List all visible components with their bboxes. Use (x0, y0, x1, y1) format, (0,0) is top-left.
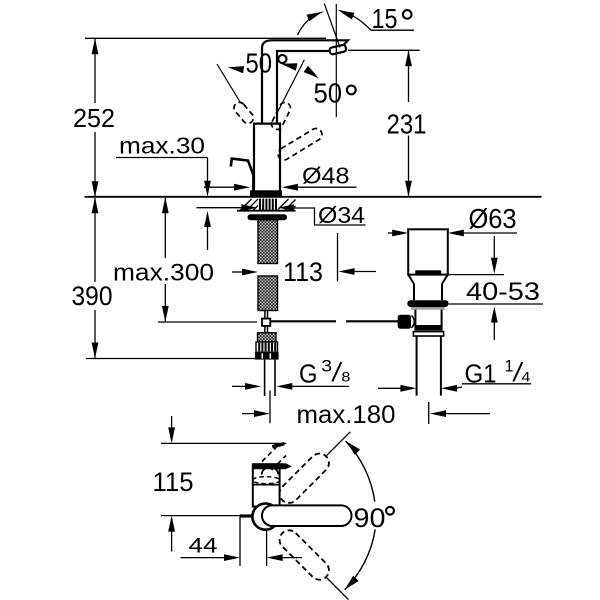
svg-text:3: 3 (321, 356, 332, 375)
diameter 63 arrow right (448, 230, 464, 237)
svg-text:115: 115 (153, 467, 194, 497)
50-degree circle second (347, 86, 356, 95)
G 3/8 arrow right (276, 383, 292, 390)
top view dashed ellipse (252, 477, 280, 484)
90-degree radial lower (325, 576, 348, 599)
diameter 34 arrow right (278, 204, 294, 211)
svg-text:max.180: max.180 (297, 401, 396, 429)
dimension 44 right extension line (266, 531, 268, 566)
deck hatching left (240, 199, 258, 211)
50-degree radial right (278, 60, 305, 112)
max.300 bottom reference line (158, 321, 257, 323)
390 arrow down (92, 343, 99, 359)
top view dashed lever down (276, 526, 333, 583)
390 arrow up (92, 197, 99, 213)
max.30 arrow up (204, 211, 211, 227)
dimension 115 upper line and arrow (171, 416, 173, 429)
max.300 arrow up (162, 197, 169, 213)
G 3/8 arrow left (232, 385, 249, 387)
max.30 leader line down (207, 158, 209, 183)
base flange (250, 190, 282, 197)
15-degree arrow right (338, 10, 354, 19)
svg-text:40-53: 40-53 (466, 278, 540, 306)
15-degree arc right (340, 11, 415, 31)
90-degree circle (386, 507, 394, 515)
dimension 390 line (94, 198, 96, 358)
svg-text:390: 390 (72, 281, 113, 311)
supply connector threads (258, 333, 277, 342)
diameter 63 underline (456, 232, 517, 234)
svg-text:50: 50 (246, 48, 273, 79)
dashed lever position upper-left (232, 100, 256, 125)
svg-text:Ø34: Ø34 (318, 202, 365, 228)
svg-text:15: 15 (372, 3, 398, 34)
dimension 44 left extension line (239, 517, 241, 567)
15-degree circle (403, 10, 412, 19)
50-degree arrow left (228, 66, 244, 73)
diameter 34 leader (292, 208, 366, 225)
rod fitting square (262, 319, 270, 326)
svg-text:Ø63: Ø63 (469, 203, 517, 234)
drain body (415, 310, 441, 331)
mounting washer (248, 214, 288, 220)
basin reference line (448, 274, 504, 276)
top view cross line (253, 484, 279, 486)
90-degree arrow upper (346, 441, 360, 455)
svg-text:max.30: max.30 (119, 132, 205, 158)
dimension max.300 line (164, 198, 166, 321)
svg-text:50: 50 (314, 77, 343, 108)
G 1 1/4 arrow left (378, 387, 404, 389)
drain plug band (415, 270, 441, 274)
supply connector striped collar (256, 342, 278, 352)
drain body bottom band (415, 325, 441, 331)
top view dashed spout (262, 447, 286, 470)
drain rod clamp (398, 315, 411, 329)
drain washer shadow band (411, 307, 444, 310)
svg-text:252: 252 (73, 103, 115, 133)
90-degree arc upper (346, 441, 375, 502)
drain taper (408, 275, 448, 284)
pop-up rod (270, 320, 336, 322)
drain upper cylinder (408, 229, 448, 274)
dimension 231 arrow up (405, 50, 412, 66)
dimension 113 arrow left (232, 271, 246, 273)
diameter 63 arrow left (388, 232, 399, 234)
top view dashed lever up (276, 450, 333, 507)
G 1 1/4 arrow right (441, 385, 457, 392)
drain tailpipe (416, 336, 418, 396)
drain mid cylinder (414, 284, 442, 300)
dimension 40-53 arrow up (491, 307, 498, 323)
supply hose left edge (264, 360, 266, 396)
50-degree arrow right (304, 66, 319, 79)
dimension 44 shaft and arrow (181, 557, 229, 559)
dimension 231 arrow down (405, 181, 412, 197)
90-degree arc lower (345, 529, 376, 589)
deck bottom line (237, 210, 296, 212)
handle lever solid (231, 159, 254, 192)
spout vertical centerline (335, 4, 337, 117)
top view cartridge dome arc (262, 467, 278, 475)
supply hose right edge (274, 360, 276, 396)
dashed lever position upper-right (270, 101, 293, 132)
diameter 34 arrow left (197, 207, 244, 209)
drain seal washer (407, 300, 448, 307)
svg-text:8: 8 (341, 368, 350, 384)
diameter 48 arrow right (282, 184, 298, 191)
top view body (253, 464, 280, 506)
390 bottom reference line (86, 358, 255, 360)
svg-text:1: 1 (505, 356, 514, 375)
max.180 arrow left (242, 413, 258, 415)
threaded shank lower (258, 276, 278, 311)
max.180 left extension line (269, 391, 271, 424)
rod fitting pin lower (265, 326, 268, 333)
deck line (85, 196, 542, 198)
faucet body (254, 124, 280, 191)
drain nut band (413, 332, 443, 336)
max.300 arrow down (162, 306, 169, 322)
50-degree arrow middle (281, 63, 297, 70)
rod fitting pin upper (265, 311, 268, 319)
diameter 48 underline (300, 186, 357, 188)
90-degree arrow lower (345, 576, 359, 590)
svg-text:113: 113 (283, 257, 323, 287)
dimension 40-53 arrow down (493, 236, 495, 262)
reference line spout underside right (348, 49, 420, 51)
aerator (329, 44, 347, 54)
svg-text:Ø48: Ø48 (302, 163, 350, 189)
svg-text:231: 231 (387, 109, 427, 140)
G 1 1/4 underline (462, 383, 531, 385)
top reference line (spout top extension) (85, 37, 326, 39)
max.30 arrow down (204, 181, 211, 197)
svg-text:44: 44 (189, 534, 218, 558)
top view dashed spout tip (272, 444, 284, 447)
dimension 44 right arrow (267, 554, 283, 561)
50-degree circle first (278, 55, 286, 63)
dimension 231 line (408, 51, 410, 196)
drain ball joint (412, 316, 415, 328)
svg-text:4: 4 (521, 368, 530, 384)
15-degree arc left (298, 12, 323, 35)
max.30 underline (116, 157, 208, 159)
dimension 115 lower arrow and line (168, 516, 175, 532)
max.180 right extension line (428, 402, 430, 424)
supply connector nut (255, 352, 279, 359)
svg-text:max.300: max.300 (113, 260, 214, 287)
top view pivot circle (252, 503, 278, 529)
svg-text:G1: G1 (465, 358, 497, 388)
G 3/8 underline (293, 385, 349, 387)
diameter 48 arrow left (204, 186, 238, 188)
spout tilted 15-degree line (324, 4, 340, 48)
svg-text:90: 90 (354, 503, 386, 533)
dimension 113 reference line (337, 233, 339, 282)
max.30 lower leader (207, 225, 209, 250)
top view spout bar (252, 463, 291, 469)
dimension 113 arrow right (339, 268, 355, 275)
dashed lever position down-right (276, 126, 324, 162)
50-degree radial left (217, 64, 241, 104)
dimension 252 line (94, 39, 96, 197)
spout outline (262, 40, 348, 123)
top view lever solid (262, 505, 352, 526)
dimension 252 arrow down (92, 181, 99, 197)
top view pivot tick (240, 514, 252, 517)
bottom view lower reference line (161, 515, 251, 517)
svg-text:G: G (299, 358, 318, 388)
max.180 arrow right (430, 410, 446, 417)
90-degree radial upper (325, 432, 350, 457)
shank stripes through deck (259, 199, 277, 211)
bottom view top reference line (161, 442, 286, 444)
dimension 252 arrow up (92, 38, 99, 54)
dimension 40-53 underline (449, 303, 543, 305)
15-degree arrow left (307, 12, 323, 21)
deck hatching right (278, 199, 296, 211)
threaded shank upper (258, 220, 278, 264)
